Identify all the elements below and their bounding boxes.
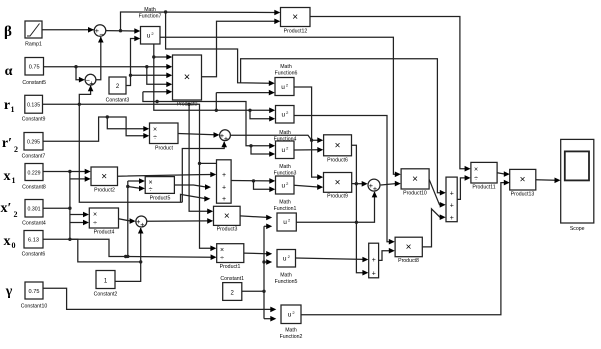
svg-text:u: u [288,312,292,319]
svg-text:Scope: Scope [570,226,585,232]
wire branch down to Product3 in1 [187,103,213,215]
svg-text:Product12: Product12 [284,29,308,35]
block Product12 [281,8,311,35]
svg-text:γ: γ [5,284,13,299]
svg-text:6.13: 6.13 [28,238,39,244]
wire x0 branch to Product1 in2 [69,239,217,260]
block Product8 [395,237,422,264]
block Constant6 [22,231,46,258]
wire Constant10 gamma to MathFunction2 in1 [43,288,276,312]
wire Product12 out to Product11 in1 [310,17,471,172]
svg-text:Product8: Product8 [398,258,419,264]
svg-text:÷: ÷ [149,187,153,194]
svg-text:×: × [224,211,230,222]
wire Ramp1 to S1 [42,27,94,33]
svg-text:Function7: Function7 [139,14,162,20]
wire jog to MathFunction3 in2 [249,144,275,157]
svg-text:+: + [372,270,376,277]
wire Product3 out to MathFunction5a in1 [240,215,272,221]
block Product5 [145,177,174,202]
wire branch to MathFunction6 in2 [216,90,274,111]
svg-text:Product1: Product1 [220,264,241,270]
sum S5 [368,179,380,193]
svg-text:×: × [412,174,418,185]
svg-text:Product6: Product6 [327,158,348,164]
wire S2 out to S1 bottom [96,37,104,80]
block Constant1 [220,276,244,300]
svg-text:Function5: Function5 [275,279,298,285]
node x1 label [4,169,16,185]
wire MathFunction1 out to Product9 in2 [294,184,323,190]
svg-text:Product11: Product11 [472,185,495,191]
wire Constant9 r1 to Product1 in1 [43,104,217,251]
wire branch to Product4 in1 [70,212,89,218]
svg-text:Constant6: Constant6 [22,252,46,258]
wire Constant5 to Product0 in2 [44,64,173,70]
wire low feed to MathFunction3 in1 [143,92,275,149]
block Product1 [217,244,244,270]
wire x column vertical [68,172,71,242]
block Product6 [324,135,352,164]
wire MathFunction6 out down to Product9 in1 [294,87,323,180]
svg-text:α: α [5,64,13,79]
svg-text:Math: Math [279,200,291,206]
svg-text:Product: Product [155,146,173,152]
svg-text:Function1: Function1 [274,206,297,212]
svg-text:u: u [281,182,285,189]
wire Product0 in5 feed [143,89,172,95]
svg-text:÷: ÷ [474,176,478,183]
wire vertical to Product5 [126,181,129,258]
block Product10 [401,169,429,197]
svg-text:Function2: Function2 [280,334,303,340]
svg-text:Product9: Product9 [327,194,348,200]
wire Product4 out to S3 [119,218,136,224]
block Constant9 [22,95,46,122]
svg-text:÷: ÷ [93,220,97,227]
block MathFunction6 [275,64,298,96]
sum S1 [94,25,106,39]
wire to Product5 in2 [128,186,145,192]
svg-text:r: r [4,98,10,113]
block Product0 [173,55,202,108]
wire r2 branch to Product in2 [107,117,149,139]
wire S1 to MathFunction7 in1 [106,28,141,34]
svg-text:Product5: Product5 [150,196,171,202]
svg-text:Constant9: Constant9 [22,117,46,123]
node x'2 label [1,201,18,219]
wire down to MathFunction4 in1 [154,57,275,113]
svg-text:×: × [406,242,412,253]
svg-text:β: β [4,24,12,40]
svg-text:Math: Math [280,64,292,70]
wire Constant3 branch to Product0 in3 [131,73,173,79]
block MathFunction4 [274,106,297,143]
sum S3 [136,216,147,229]
block Product13 [510,169,536,197]
svg-text:Math: Math [285,328,297,334]
svg-text:×: × [153,127,157,134]
svg-text:1: 1 [12,176,16,185]
wire alpha branch to S2 [76,67,85,83]
wire Constant1 vertical [262,226,265,318]
wire Product1 out to MathFunction5b in1 [244,251,272,257]
wire Constant2 to S3 bottom [115,228,144,282]
svg-text:2: 2 [14,145,18,154]
svg-text:Product3: Product3 [217,227,238,233]
svg-text:+: + [222,172,226,179]
block MathFunction1 [274,176,297,212]
wire MathFunction4 out to Product8 in1 [294,116,395,245]
wire r1 branch to S2 bottom [78,85,94,106]
svg-text:Constant4: Constant4 [22,221,46,227]
wire SumRect3 out to MathFunction1 in1 [231,178,275,184]
block MathFunction7 [139,7,162,44]
wire Constant8 x1 to Product2 in1 [43,169,91,175]
svg-text:u: u [281,112,285,119]
wire to Product5 in1 [128,178,145,184]
wire left low run [79,104,182,202]
wire MathFunction7 out to Product10 in1 [160,37,401,177]
wire to MathFunction5b in2 [264,259,272,265]
svg-text:r′: r′ [2,136,12,151]
svg-text:Constant3: Constant3 [106,98,130,104]
svg-text:Constant5: Constant5 [22,80,46,86]
svg-text:+: + [450,190,454,197]
wire Product10 out diagonal to SumRect1 in2 [429,179,446,207]
block Constant10 [21,282,48,310]
svg-text:÷: ÷ [220,255,224,262]
wire to Product0 in1 [152,44,172,60]
block Constant2 [94,271,118,298]
wire S4 out to Product6 in1 [231,135,324,143]
svg-text:Constant7: Constant7 [22,154,46,160]
svg-text:+: + [224,134,228,143]
sum S4 [220,130,231,143]
block SumRect1 [446,177,457,222]
wire Product6 out to SumRect2 in2 [352,145,369,275]
svg-text:+: + [372,257,376,264]
svg-text:2: 2 [14,210,18,219]
wire Product9 out to S5 [352,181,368,187]
block Product3 [214,206,241,232]
wire branch to SumRect1 in1 [241,59,446,196]
wire Product0 out to Product12 in2 [202,19,281,77]
sum S2 [85,74,96,87]
svg-text:×: × [148,180,152,187]
wire S3 out to Product3 in2 [147,218,213,224]
svg-text:+: + [222,196,226,203]
svg-text:+: + [450,215,454,222]
wire MathFunction5a out to S5 bottom [296,191,377,222]
wire SumRect1 out to Product11 in2 [457,175,470,199]
svg-text:×: × [474,167,478,174]
wire Product13 out to Scope [536,178,561,184]
block MathFunction2 [280,305,303,340]
svg-text:x: x [4,234,11,249]
node beta label [4,24,12,40]
wire Constant1 out [242,290,264,292]
wire branch to Product2 in2 [70,176,91,182]
svg-text:Function6: Function6 [275,71,298,77]
wire to S4 bottom [182,141,227,202]
svg-text:Product13: Product13 [511,192,535,198]
wire to MathFunction5a in2 [264,224,272,230]
block Constant3 [106,77,130,104]
svg-text:x: x [4,169,11,184]
svg-text:0.229: 0.229 [28,171,41,177]
svg-text:×: × [520,175,526,186]
wire Constant7 r2 to Product in1 [43,115,149,141]
block Constant4 [22,200,46,227]
wire Constant3 to MathFunction7 in2 [126,36,140,86]
wire S1 branch top to Product12 in1 [121,10,281,31]
wire diagonal to SumRect3 in3 [181,194,211,202]
block MathFunction5b [275,250,298,286]
svg-text:+: + [222,185,226,192]
svg-text:×: × [335,141,341,152]
node x0 label [4,234,16,250]
svg-text:÷: ÷ [153,135,157,142]
block Constant5 [22,58,46,87]
svg-text:u: u [147,33,151,40]
block MathFunction3 [274,141,297,177]
block Ramp1 [25,21,42,48]
wire top branch down to MathFunction6 in1 [166,12,275,86]
svg-text:×: × [93,212,97,219]
wire SumRect2 out to Product8 in2 [379,248,395,261]
block Product4 [89,208,118,236]
svg-text:u: u [283,256,287,263]
node alpha label [5,64,13,79]
svg-text:Constant10: Constant10 [21,304,48,310]
svg-text:×: × [335,178,341,189]
svg-text:Math: Math [280,273,292,279]
svg-text:u: u [281,84,285,91]
svg-text:Constant1: Constant1 [220,276,244,282]
block Product [150,123,179,152]
wire to MathFunction2 in2 [264,316,276,322]
wire Product2 out to SumRect3 in1 [118,172,217,178]
block Constant7 [22,133,46,160]
block SumRect2 [369,243,379,278]
node gamma label [5,284,13,299]
svg-text:×: × [101,172,107,183]
svg-text:+: + [373,184,377,193]
svg-text:×: × [220,247,224,254]
svg-text:+: + [450,202,454,209]
svg-text:0.135: 0.135 [27,103,40,109]
wire r1 branch to SumRect3 top [200,162,217,164]
block Product9 [324,173,352,200]
wire Product8 out to SumRect1 in3 [422,209,445,247]
svg-text:Product10: Product10 [403,191,427,197]
svg-text:u: u [283,219,287,226]
wire Product11 out to Product13 in1 [497,171,510,177]
node r1 label [4,98,15,114]
block MathFunction5a [277,213,296,231]
svg-text:0.301: 0.301 [28,207,41,213]
wire Constant6 x0 run [43,239,142,263]
wire Product out to S4 [178,132,220,138]
svg-text:0: 0 [12,241,16,250]
svg-text:0.75: 0.75 [29,65,40,71]
svg-text:Math: Math [279,164,291,170]
block Constant8 [22,164,46,191]
svg-text:Constant2: Constant2 [94,292,118,298]
wire Constant4 x2 join [43,207,70,209]
svg-text:×: × [184,72,190,84]
wire S5 out to Product10 in2 [381,181,401,187]
block Scope [561,139,594,232]
wire branch to Product0 in4 [147,67,173,87]
node r'2 label [2,136,18,154]
block SumRect3 [217,160,232,203]
wire jog to MathFunction1 in2 [252,179,275,192]
wire branch to Product4 in2 [70,220,89,226]
svg-text:Product2: Product2 [94,188,115,194]
svg-text:Ramp1: Ramp1 [25,42,42,48]
wire MathFunction5b out to SumRect2 in1 [296,257,369,263]
wire jog to MathFunction4 in2 [248,109,275,122]
svg-text:Constant8: Constant8 [22,185,46,191]
svg-text:×: × [292,12,298,23]
wire MathFunction2 out to Product13 in2 [301,180,510,315]
block Product11 [471,162,497,190]
svg-text:0.75: 0.75 [29,289,40,295]
wire Product5 out to SumRect3 in2 [174,184,211,190]
svg-text:0.295: 0.295 [27,140,40,146]
block Product2 [91,167,118,194]
svg-text:1: 1 [11,105,15,114]
wire MathFunction3 out to Product6 in2 [294,147,323,153]
svg-text:x′: x′ [1,201,12,216]
svg-text:Product4: Product4 [94,230,115,236]
svg-text:u: u [281,147,285,154]
